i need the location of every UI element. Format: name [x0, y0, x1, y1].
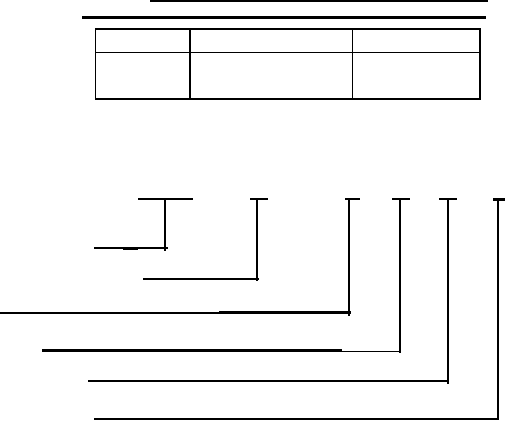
drop line V4	[399, 198, 401, 353]
leader H1	[94, 247, 168, 249]
table column divider 1	[189, 28, 191, 100]
table column divider 2	[352, 28, 353, 100]
table row divider	[95, 52, 480, 53]
drop line V5	[447, 199, 449, 384]
drop line V3	[348, 198, 350, 316]
leader H6	[94, 418, 499, 420]
leader H4 lower segment	[222, 351, 401, 353]
drop line V6	[497, 199, 499, 421]
table bottom border	[95, 98, 480, 100]
table left border	[95, 28, 96, 100]
drop line V2	[256, 198, 258, 281]
tick T3	[345, 198, 360, 200]
tick T6	[493, 198, 505, 200]
leader H3 left segment	[0, 312, 222, 314]
top rule 2	[82, 16, 486, 18]
drop line V1	[164, 198, 166, 251]
tick T4	[392, 198, 410, 200]
leader H1 overlap segment	[123, 248, 139, 250]
leader H5	[88, 380, 449, 382]
tick T5	[439, 198, 458, 200]
leader H3 right segment	[219, 311, 351, 314]
table top border	[95, 28, 480, 29]
tick T1	[138, 198, 193, 201]
tick T2	[250, 198, 268, 200]
table right border	[479, 28, 481, 100]
leader H4 upper segment	[42, 349, 342, 351]
top rule 1	[150, 0, 488, 2]
leader H2	[143, 278, 259, 280]
